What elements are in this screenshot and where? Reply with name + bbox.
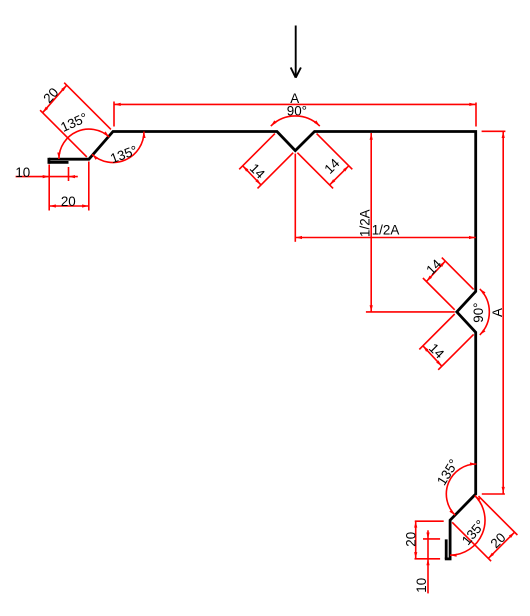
svg-text:90°: 90°	[471, 302, 486, 322]
svg-text:A: A	[490, 308, 505, 317]
svg-text:1/2A: 1/2A	[358, 209, 373, 237]
svg-text:1/2A: 1/2A	[372, 223, 400, 238]
svg-text:10: 10	[414, 578, 429, 593]
svg-text:10: 10	[15, 165, 30, 180]
svg-text:20: 20	[61, 194, 76, 209]
svg-text:20: 20	[403, 532, 418, 547]
